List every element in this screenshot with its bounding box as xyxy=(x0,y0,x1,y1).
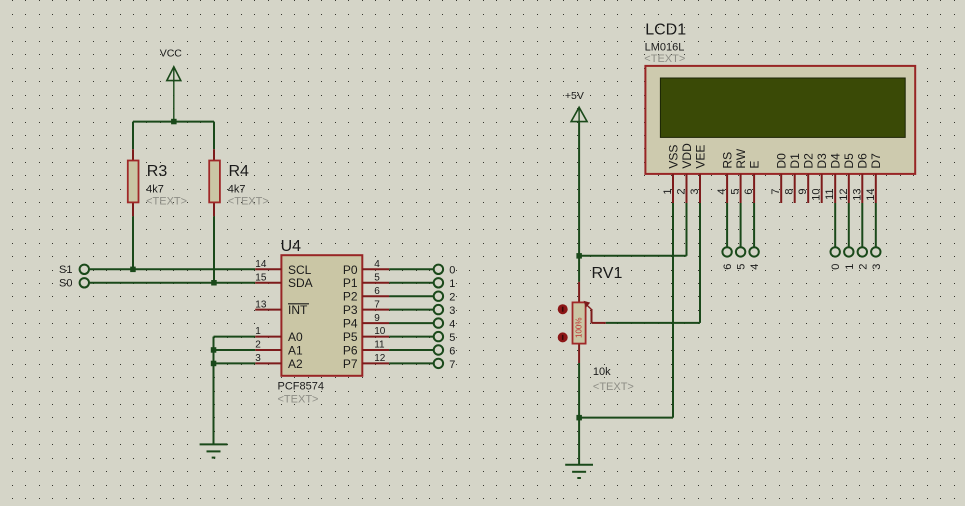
svg-text:6: 6 xyxy=(449,345,455,357)
svg-text:10k: 10k xyxy=(593,366,611,378)
svg-text:10: 10 xyxy=(374,326,386,337)
svg-text:D7: D7 xyxy=(869,153,883,169)
svg-text:RS: RS xyxy=(720,152,734,169)
svg-text:P0: P0 xyxy=(343,263,358,277)
svg-text:3: 3 xyxy=(255,353,261,364)
svg-text:0: 0 xyxy=(830,264,842,270)
svg-text:4: 4 xyxy=(449,319,455,331)
svg-text:<TEXT>: <TEXT> xyxy=(228,195,269,207)
svg-text:D6: D6 xyxy=(856,153,870,169)
svg-text:RW: RW xyxy=(734,148,748,168)
svg-text:5: 5 xyxy=(374,272,380,283)
svg-text:11: 11 xyxy=(374,340,385,351)
svg-text:7: 7 xyxy=(449,359,455,371)
svg-text:1: 1 xyxy=(449,278,455,290)
svg-text:3: 3 xyxy=(449,305,455,317)
svg-text:R3: R3 xyxy=(147,163,168,180)
svg-text:RV1: RV1 xyxy=(592,265,623,282)
svg-text:3: 3 xyxy=(871,264,883,270)
svg-text:5: 5 xyxy=(736,264,748,270)
svg-text:0: 0 xyxy=(449,265,455,277)
svg-text:6: 6 xyxy=(374,286,380,297)
svg-text:11: 11 xyxy=(824,189,836,200)
svg-text:U4: U4 xyxy=(281,238,302,255)
svg-text:7: 7 xyxy=(770,189,782,195)
svg-text:A2: A2 xyxy=(288,357,303,371)
svg-text:12: 12 xyxy=(374,353,386,364)
svg-text:12: 12 xyxy=(838,189,850,201)
svg-text:S0: S0 xyxy=(59,278,72,290)
svg-text:S1: S1 xyxy=(59,264,72,276)
svg-text:A0: A0 xyxy=(288,330,303,344)
svg-text:100%: 100% xyxy=(575,318,584,338)
svg-text:<TEXT>: <TEXT> xyxy=(593,381,634,393)
svg-text:10: 10 xyxy=(811,189,823,201)
svg-text:D3: D3 xyxy=(815,153,829,169)
svg-text:<TEXT>: <TEXT> xyxy=(644,53,685,65)
svg-text:15: 15 xyxy=(255,272,267,283)
svg-text:4: 4 xyxy=(749,264,761,270)
svg-text:D2: D2 xyxy=(802,153,816,169)
svg-text:2: 2 xyxy=(255,340,261,351)
svg-text:14: 14 xyxy=(865,189,877,201)
svg-text:LCD1: LCD1 xyxy=(645,22,686,39)
svg-text:14: 14 xyxy=(255,259,267,270)
svg-text:A1: A1 xyxy=(288,344,303,358)
svg-text:7: 7 xyxy=(374,299,380,310)
svg-text:P6: P6 xyxy=(343,344,358,358)
svg-text:P7: P7 xyxy=(343,357,358,371)
svg-text:D4: D4 xyxy=(829,153,843,169)
svg-text:VEE: VEE xyxy=(693,145,707,169)
svg-text:<TEXT>: <TEXT> xyxy=(146,195,187,207)
svg-text:VSS: VSS xyxy=(666,145,680,169)
svg-text:D5: D5 xyxy=(842,153,856,169)
svg-text:P3: P3 xyxy=(343,303,358,317)
svg-text:13: 13 xyxy=(851,189,863,201)
svg-text:4k7: 4k7 xyxy=(146,183,164,195)
svg-text:<TEXT>: <TEXT> xyxy=(278,393,319,405)
svg-text:2: 2 xyxy=(449,292,455,304)
svg-text:8: 8 xyxy=(784,189,796,195)
svg-text:SDA: SDA xyxy=(288,276,313,290)
svg-text:1: 1 xyxy=(255,326,261,337)
svg-text:P4: P4 xyxy=(343,317,358,331)
svg-text:1: 1 xyxy=(844,264,856,270)
svg-text:3: 3 xyxy=(689,189,701,195)
svg-text:9: 9 xyxy=(797,189,809,195)
svg-text:4k7: 4k7 xyxy=(228,183,246,195)
svg-text:LM016L: LM016L xyxy=(645,41,685,53)
svg-text:+5V: +5V xyxy=(565,90,584,102)
svg-text:P2: P2 xyxy=(343,290,358,304)
svg-text:5: 5 xyxy=(730,189,742,195)
svg-text:4: 4 xyxy=(716,189,728,195)
svg-text:6: 6 xyxy=(743,189,755,195)
svg-text:SCL: SCL xyxy=(288,263,312,277)
svg-text:R4: R4 xyxy=(229,163,250,180)
svg-text:P1: P1 xyxy=(343,276,358,290)
svg-text:D0: D0 xyxy=(775,153,789,169)
svg-text:5: 5 xyxy=(449,332,455,344)
svg-text:E: E xyxy=(747,161,761,169)
svg-text:2: 2 xyxy=(676,189,688,195)
svg-text:P5: P5 xyxy=(343,330,358,344)
svg-text:6: 6 xyxy=(722,264,734,270)
svg-text:1: 1 xyxy=(662,189,674,195)
svg-text:INT: INT xyxy=(288,303,308,317)
svg-text:VDD: VDD xyxy=(680,143,694,169)
svg-text:2: 2 xyxy=(857,264,869,270)
svg-text:PCF8574: PCF8574 xyxy=(278,381,324,393)
svg-text:D1: D1 xyxy=(788,153,802,169)
svg-text:4: 4 xyxy=(374,259,380,270)
svg-text:VCC: VCC xyxy=(160,48,183,60)
svg-text:9: 9 xyxy=(374,313,380,324)
svg-text:13: 13 xyxy=(255,299,267,310)
